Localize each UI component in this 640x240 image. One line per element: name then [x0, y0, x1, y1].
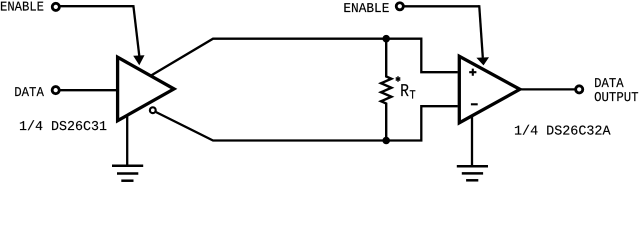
termination resistor RT	[381, 39, 391, 141]
driver enable input terminal	[52, 3, 59, 10]
wire: bottom rail junction to receiver - input	[386, 106, 458, 140]
svg-text:DATA: DATA	[594, 77, 624, 92]
driver ground	[112, 115, 143, 181]
driver enable arrowhead	[133, 55, 144, 65]
wire: top rail junction to receiver + input	[386, 39, 458, 72]
svg-text:T: T	[409, 89, 416, 103]
wire: receiver output	[520, 88, 575, 90]
svg-text:1/4 DS26C31: 1/4 DS26C31	[19, 120, 107, 135]
receiver enable input terminal	[396, 3, 403, 10]
wire: driver enable drop	[133, 5, 139, 56]
driver inverting-output bubble	[150, 107, 156, 113]
wire: inverting output diagonal + bottom rail	[156, 112, 386, 140]
svg-text:DATA: DATA	[14, 86, 45, 101]
wire: receiver enable drop	[479, 5, 483, 57]
wire: non-inverting output diagonal + top rail	[152, 39, 387, 76]
data input terminal	[52, 87, 59, 94]
wire: data input	[60, 89, 117, 91]
wire: driver enable horizontal	[60, 5, 133, 7]
svg-text:ENABLE: ENABLE	[343, 2, 389, 17]
receiver minus input symbol	[471, 103, 478, 105]
svg-text:R: R	[400, 82, 409, 102]
svg-text:1/4 DS26C32A: 1/4 DS26C32A	[514, 125, 611, 140]
receiver plus input symbol	[469, 69, 476, 76]
receiver enable arrowhead	[476, 57, 489, 65]
receiver U2 triangle (1/4 DS26C32A)	[459, 56, 520, 123]
wire: receiver enable horizontal	[404, 5, 479, 7]
label asterisk	[396, 76, 401, 81]
junction dot bottom	[382, 137, 390, 145]
data output terminal	[576, 86, 583, 93]
svg-text:OUTPUT: OUTPUT	[594, 91, 639, 106]
junction dot top	[382, 35, 390, 43]
receiver ground	[457, 116, 488, 180]
svg-text:ENABLE: ENABLE	[0, 1, 44, 16]
driver U1 triangle (1/4 DS26C31)	[118, 57, 174, 120]
